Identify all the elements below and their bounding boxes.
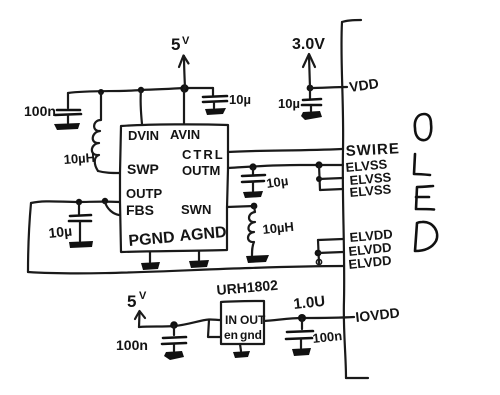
svg-text:CTRL: CTRL (182, 147, 225, 162)
node FBS tap (102, 198, 108, 204)
node ELVSS row2 (316, 176, 322, 182)
connector J1 OLED vertical (341, 22, 346, 378)
wire ELVDD bracket vertical (318, 240, 319, 263)
svg-text:5: 5 (127, 292, 136, 311)
capacitor C6 lower lead (173, 344, 175, 351)
ground C5 (301, 111, 322, 120)
capacitor C3 lead (78, 203, 80, 214)
capacitor C4 lead (252, 168, 254, 174)
node rail/AVIN (180, 84, 188, 92)
wire SWN (227, 206, 254, 207)
svg-text:100n: 100n (24, 103, 56, 119)
ground C7 (292, 348, 311, 356)
capacitor C5 lower lead (310, 106, 312, 111)
svg-text:1.0U: 1.0U (293, 293, 326, 313)
svg-text:100n: 100n (116, 337, 148, 353)
power 5V arrow (184, 56, 185, 88)
connector J1 top bar (342, 20, 361, 22)
wire PGND lead (149, 252, 151, 262)
wire ELVDD row1 (318, 239, 343, 240)
wire U2 GND lead (240, 344, 241, 351)
capacitor C1 lower lead (67, 115, 69, 123)
wire top 5V rail (68, 88, 213, 93)
capacitor C7 lead (301, 319, 303, 329)
svg-text:OUTP: OUTP (126, 186, 162, 201)
node OUTM/C4 (249, 163, 256, 170)
wire ELVSS bracket vertical (319, 165, 320, 190)
svg-text:DVIN: DVIN (128, 128, 159, 143)
svg-text:10µ: 10µ (229, 92, 251, 107)
wire ELVSS row3 (320, 189, 343, 190)
svg-text:en: en (224, 328, 238, 342)
svg-text:10µ: 10µ (265, 173, 289, 191)
ground C1 (54, 123, 80, 130)
node C6 tap (170, 321, 178, 329)
svg-text:gnd: gnd (240, 328, 262, 342)
capacitor C6 lead (173, 326, 175, 335)
wire DVIN (141, 90, 142, 124)
capacitor C2 10u plates (203, 96, 227, 97)
IC U1 body (120, 124, 228, 252)
wire AVIN (183, 88, 185, 123)
capacitor C6 100n plates (163, 337, 186, 338)
wire ELVDD row2 (318, 252, 343, 253)
capacitor C7 lower lead (300, 339, 302, 348)
svg-text:V: V (182, 35, 190, 47)
regulator U2 body (221, 301, 264, 344)
inductor L2 10uH (248, 206, 255, 256)
wire EN loop (208, 320, 221, 337)
node ELVDD row3 ring (316, 259, 321, 264)
svg-text:10µH: 10µH (63, 150, 95, 167)
svg-text:IN: IN (225, 313, 237, 327)
capacitor C4 lower lead (252, 182, 254, 191)
connector J1 bottom bar (346, 377, 368, 379)
ground PGND (141, 262, 160, 270)
wire rail to C2 (212, 88, 214, 95)
capacitor C5 lead (309, 88, 311, 98)
node ELVSS bracket (315, 161, 322, 168)
power 3.0V node (307, 85, 314, 92)
svg-text:5: 5 (171, 35, 180, 54)
label OLED letter L (414, 154, 430, 175)
wire OUTM to ELVSS (228, 165, 343, 168)
svg-text:FBS: FBS (126, 202, 154, 218)
svg-text:SWN: SWN (181, 202, 211, 217)
ground C3 (69, 241, 93, 248)
svg-text:AVIN: AVIN (170, 127, 200, 142)
wire left loop down (28, 203, 31, 272)
label OLED letter O (415, 114, 431, 140)
ground L2 (246, 255, 269, 263)
node ELVDD row2 (315, 250, 322, 257)
wire L1 to SWP (98, 171, 120, 173)
power 5V bottom arrow (138, 313, 141, 327)
node OUT/C7 (298, 314, 306, 322)
svg-text:V: V (139, 290, 147, 302)
svg-text:100n: 100n (312, 328, 343, 346)
wire VDD stub (310, 87, 347, 88)
capacitor C5 10u plates (303, 99, 321, 100)
ground C6 (164, 351, 184, 360)
svg-text:3.0V: 3.0V (292, 36, 325, 53)
label OLED letter E (416, 186, 434, 210)
wire OUT to IOVDD (264, 317, 354, 321)
wire OUTP net (31, 201, 120, 203)
wire AGND lead (198, 251, 200, 260)
wire bottom long run (28, 266, 344, 273)
ground C4 (243, 191, 263, 198)
node rail/L1 (98, 89, 104, 95)
node C3 tap (76, 199, 82, 205)
svg-text:10µ: 10µ (278, 96, 300, 111)
capacitor C1 100n lead (67, 93, 69, 108)
wire ELVSS row2 (319, 178, 343, 179)
capacitor C2 lead (213, 102, 215, 108)
label OLED letter D (415, 222, 437, 251)
wire FBS jog (105, 202, 119, 215)
svg-text:10µ: 10µ (48, 223, 73, 241)
ground U2 (233, 351, 250, 358)
capacitor C3 10u plates (70, 215, 91, 216)
svg-text:OUTM: OUTM (182, 163, 220, 178)
ground C2 (205, 108, 226, 115)
node rail/DVIN (138, 87, 144, 93)
inductor L1 10uH (92, 93, 101, 171)
ground AGND (189, 260, 209, 268)
node SWN/L2 (251, 203, 258, 210)
power 3.0V arrow (309, 56, 310, 88)
capacitor C3 lower lead (79, 222, 81, 241)
wire CTRL to SWIRE (228, 149, 342, 152)
svg-text:OUT: OUT (240, 313, 266, 327)
wire 5V to U2 IN (139, 319, 221, 327)
label OLED letter E midbar (416, 196, 429, 199)
svg-text:SWP: SWP (127, 161, 159, 177)
capacitor C7 100n plates (287, 331, 313, 332)
capacitor C1 100n plates (57, 109, 80, 112)
capacitor C4 10u plates (242, 175, 265, 176)
